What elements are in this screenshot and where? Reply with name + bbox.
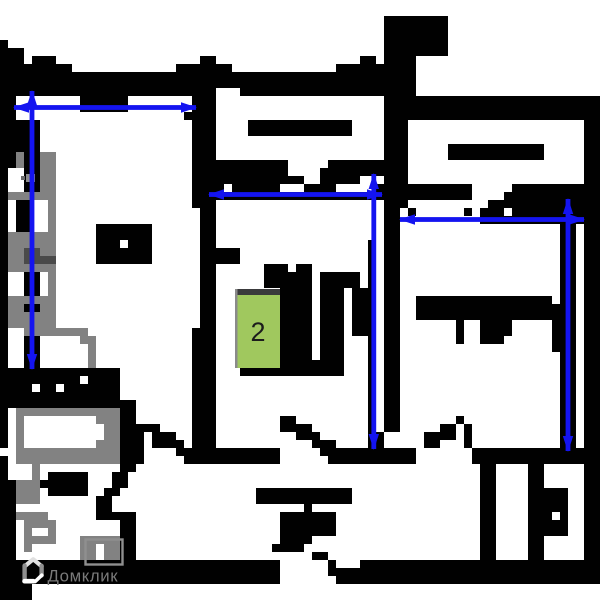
svg-text:Домклик: Домклик [48,567,119,586]
svg-text:2: 2 [250,317,265,347]
